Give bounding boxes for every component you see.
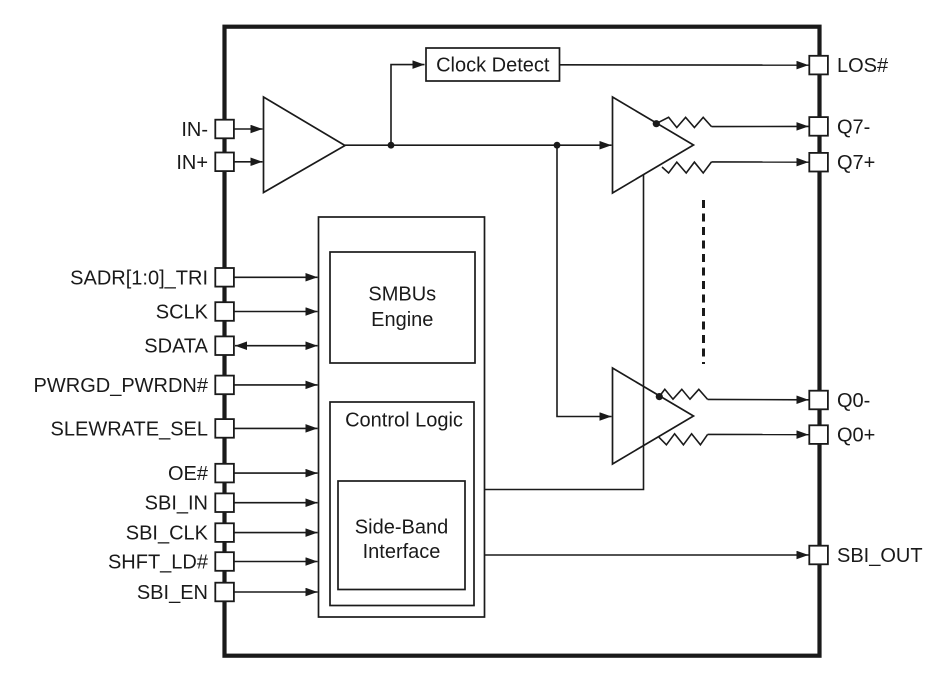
wire: OE# arrow xyxy=(234,472,318,474)
pin SDATA xyxy=(215,336,234,355)
wire: zigzag to Q7- pin xyxy=(712,125,809,127)
wire: enable line from control logic to output buffers xyxy=(485,175,644,490)
wire: input buffer output main line to upper output buffer xyxy=(345,144,612,146)
node dot on Q7 buffer top edge xyxy=(653,120,660,127)
svg-text:IN-: IN- xyxy=(181,119,208,141)
node junction dot A (clock detect tap) xyxy=(388,142,395,149)
svg-text:SBI_IN: SBI_IN xyxy=(145,493,208,515)
wire: zigzag to Q0+ pin xyxy=(708,433,809,435)
SMBus/control group box xyxy=(319,217,485,617)
pin IN+ xyxy=(215,153,234,172)
svg-text:Q0-: Q0- xyxy=(837,390,870,412)
svg-text:OE#: OE# xyxy=(168,463,209,485)
wire: SHFT_LD# arrow xyxy=(234,561,318,563)
pin SBI_OUT xyxy=(809,546,828,565)
pin SBI_CLK xyxy=(215,523,234,542)
node junction dot B (lower buffer tap) xyxy=(554,142,561,149)
svg-text:SLEWRATE_SEL: SLEWRATE_SEL xyxy=(51,418,208,440)
wire: zigzag to Q7+ pin xyxy=(712,161,809,163)
wire: SBI_IN arrow xyxy=(234,502,318,504)
resistor zigzag to Q7+ xyxy=(662,162,712,173)
svg-text:SHFT_LD#: SHFT_LD# xyxy=(108,552,209,574)
chip outline box xyxy=(225,27,820,656)
pin LOS# xyxy=(809,56,828,75)
wire: PWRGD_PWRDN# arrow xyxy=(234,384,318,386)
pin PWRGD_PWRDN# xyxy=(215,376,234,395)
svg-text:Q0+: Q0+ xyxy=(837,425,875,447)
pin SCLK xyxy=(215,302,234,321)
pin Q7- xyxy=(809,117,828,136)
Control Logic block xyxy=(330,402,474,606)
wire: SDATA bidirectional arrow xyxy=(235,345,318,347)
svg-text:LOS#: LOS# xyxy=(837,55,889,77)
pin Q7+ xyxy=(809,153,828,172)
pin SADR[1:0]_TRI xyxy=(215,268,234,287)
svg-text:Q7+: Q7+ xyxy=(837,152,875,174)
wire: SADR arrow xyxy=(234,276,318,278)
input buffer U1 xyxy=(264,97,346,193)
wire: IN+ pin arrow xyxy=(234,161,263,163)
svg-text:Interface: Interface xyxy=(363,541,441,563)
pin SBI_EN xyxy=(215,583,234,602)
pin IN- xyxy=(215,120,234,139)
output buffer Q0 xyxy=(613,368,694,464)
pin SHFT_LD# xyxy=(215,552,234,571)
svg-text:SMBUs: SMBUs xyxy=(368,284,436,306)
svg-text:SDATA: SDATA xyxy=(144,336,208,358)
wire: zigzag to Q0- pin xyxy=(708,398,809,400)
Side-Band Interface block xyxy=(338,481,465,590)
wire: SBI_EN arrow xyxy=(234,591,318,593)
node dot on Q0 buffer top edge xyxy=(656,393,663,400)
resistor zigzag to Q7- xyxy=(656,117,712,127)
wire: SBI_CLK arrow xyxy=(234,532,318,534)
svg-text:SBI_CLK: SBI_CLK xyxy=(126,523,209,545)
svg-text:SBI_OUT: SBI_OUT xyxy=(837,545,923,567)
wire: SLEWRATE_SEL arrow xyxy=(234,427,318,429)
wire: SCLK arrow xyxy=(234,311,318,313)
Clock Detect block xyxy=(426,48,560,81)
resistor zigzag to Q0+ xyxy=(659,434,708,445)
wire: side-band interface to SBI_OUT pin xyxy=(465,554,809,556)
svg-text:Clock Detect: Clock Detect xyxy=(436,55,550,77)
svg-text:Q7-: Q7- xyxy=(837,116,870,138)
svg-text:Control Logic: Control Logic xyxy=(345,409,463,431)
output buffer Q7 xyxy=(613,97,694,193)
wire: riser from node A to Clock Detect xyxy=(391,65,425,146)
SMBUs Engine block xyxy=(330,252,475,363)
svg-text:Engine: Engine xyxy=(371,309,433,331)
pin OE# xyxy=(215,464,234,483)
svg-text:PWRGD_PWRDN#: PWRGD_PWRDN# xyxy=(34,375,209,397)
pin SLEWRATE_SEL xyxy=(215,419,234,438)
wire: drop from node B to lower output buffer xyxy=(557,145,612,416)
pin Q0- xyxy=(809,391,828,410)
pin Q0+ xyxy=(809,425,828,444)
svg-text:SCLK: SCLK xyxy=(156,302,209,324)
wire: Clock Detect to LOS# pin xyxy=(560,64,809,66)
svg-text:IN+: IN+ xyxy=(176,152,208,174)
svg-text:Side-Band: Side-Band xyxy=(355,516,448,538)
pin SBI_IN xyxy=(215,493,234,512)
svg-text:SBI_EN: SBI_EN xyxy=(137,582,208,604)
dashed ellipsis line between buffers xyxy=(702,200,705,364)
svg-text:SADR[1:0]_TRI: SADR[1:0]_TRI xyxy=(70,267,208,289)
resistor zigzag to Q0- xyxy=(659,389,707,399)
redraw enable line across Q0 buffer interior xyxy=(643,387,645,446)
wire: IN- pin arrow xyxy=(234,128,263,130)
